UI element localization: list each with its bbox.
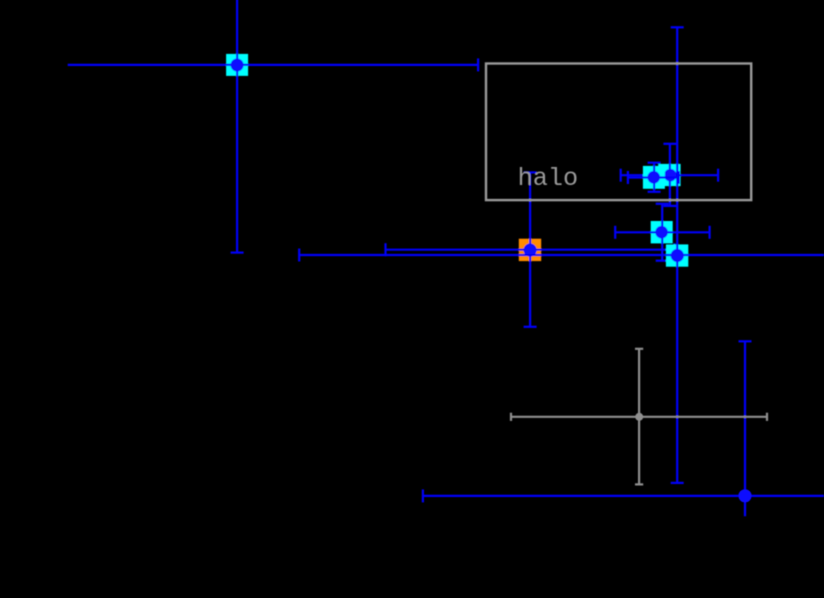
x error cap C right [678, 171, 680, 184]
y error bar F (tall) [676, 27, 678, 483]
dot C [647, 171, 660, 184]
x error bar E [615, 231, 709, 233]
y error cap G top [739, 340, 752, 342]
x error bar B [386, 249, 675, 251]
marker square A [226, 54, 248, 76]
x error bar F (clipped right) [299, 254, 824, 256]
x error cap E left [614, 226, 616, 239]
marker square C [643, 166, 665, 189]
x error bar H [511, 416, 767, 418]
marker square E [651, 221, 673, 243]
marker square D [658, 164, 680, 186]
x error cap G left [422, 489, 424, 502]
y error cap A bottom [231, 252, 244, 254]
x error cap H left [510, 413, 512, 421]
data point F (cyan square, lowest of cluster) [299, 27, 824, 483]
x error cap B left [384, 243, 386, 256]
marker square F [666, 244, 688, 266]
y error cap E bottom (partly hidden by square F) [656, 260, 669, 262]
y error cap C bottom [648, 191, 661, 193]
data point E (cyan square, middle) [615, 204, 709, 261]
x error cap B right (hidden later by square F) [673, 243, 675, 256]
y error cap H bottom [635, 483, 643, 485]
y error cap D bottom [663, 205, 676, 207]
y error bar B [529, 172, 531, 326]
y error cap B bottom [524, 326, 537, 328]
dot A [231, 59, 244, 72]
y error cap E top [656, 203, 669, 205]
dot G [738, 489, 751, 502]
dot B [524, 243, 537, 256]
x error cap E right [708, 226, 710, 239]
y error bar D [669, 144, 671, 206]
y error cap D top [663, 143, 676, 145]
y error cap F top [671, 26, 684, 28]
x error bar D [621, 174, 718, 176]
y error cap F bottom [671, 482, 684, 484]
x error cap H right [766, 413, 768, 421]
data point B (orange square) [386, 172, 675, 326]
halo region box [486, 64, 751, 201]
marker square B [519, 239, 541, 261]
dot F [671, 249, 684, 262]
y error bar C [653, 163, 655, 192]
data point D (cyan square, right of pair) [621, 144, 718, 206]
y error bar G [744, 341, 746, 516]
x error cap F left [298, 249, 300, 262]
dot H [635, 413, 643, 421]
x error cap D right [717, 169, 719, 182]
x error cap C left [627, 171, 629, 184]
y error bar A (clipped at top) [236, 0, 238, 253]
data point G (blue circle, bottom right) [423, 341, 824, 516]
y error bar E [661, 204, 663, 261]
dot E [655, 226, 668, 239]
x error cap D left [620, 169, 622, 182]
x error bar G (clipped right) [423, 495, 824, 497]
dot D [664, 169, 677, 182]
data point C (cyan square, left of pair) [628, 163, 679, 192]
data point H (gray, small) [511, 349, 767, 485]
x error bar C [628, 176, 679, 178]
x error cap A right [477, 58, 479, 71]
y error bar H [638, 349, 640, 485]
x error bar A [68, 64, 478, 66]
y error cap B top [524, 171, 537, 173]
y error cap C top [648, 162, 661, 164]
data point A (top-left, cyan square) [68, 0, 478, 253]
y error cap H top [635, 348, 643, 350]
svg-text:halo: halo [518, 164, 578, 193]
